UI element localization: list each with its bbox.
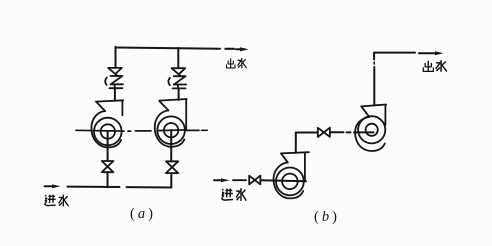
wire: valve A1 to suction header [107,172,109,187]
wire: pump B2 discharge riser [373,67,375,105]
wire: pump P1 suction drop [107,132,109,161]
gate valve VB1 on pump B1 suction [249,176,260,185]
pump P2 (centrifugal) [155,99,187,147]
check+gate valve V1 on pump P1 discharge [105,68,123,88]
inlet flow arrow (a) [45,184,61,188]
gate valve A1 on pump P1 suction [102,161,114,172]
outlet flow arrow (a) [236,47,249,51]
wire: pump P2 discharge to header [177,48,179,100]
wire: pump B1 discharge riser [295,133,297,153]
wire: valve VB2 to pump B2 [330,131,374,133]
interstage pipe (b) [296,132,318,134]
wire: V1 to pump P1 casing [114,88,116,101]
gate valve A2 on pump P2 suction [166,161,178,173]
label 进水 (a) [44,195,68,207]
pump P1 (centrifugal) [91,100,123,147]
pump B2 (centrifugal) [355,105,386,152]
gate valve VB2 between pumps [318,128,330,137]
wire: valve VB1 to pump B1 [260,180,306,181]
inlet flow arrow (b) [214,178,246,182]
label 进水 (b) [221,188,246,201]
diagram (a) suction header pipe [68,186,172,189]
wire: branch 1 riser from header [115,47,117,68]
wire: valve A2 to pump P2 [170,130,172,162]
check+gate valve V2 on pump P2 discharge [168,68,186,88]
wire: riser to valve A2 [170,173,172,187]
svg-text:(a): (a) [130,206,153,222]
label 出水 (a) [226,58,246,68]
svg-text:(b): (b) [314,209,337,225]
outlet flow arrow (b) [419,51,444,55]
pump B1 (centrifugal) [274,152,309,198]
pump axis centerline (dash-dot) [76,130,207,131]
diagram (b) outlet pipe [374,52,415,54]
diagram (a) outlet header pipe [116,48,235,49]
label 出水 (b) [423,60,447,72]
